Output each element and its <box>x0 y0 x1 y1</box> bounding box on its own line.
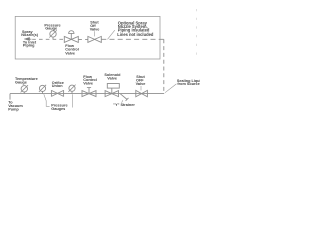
pressure gauge PG1 (bottom) <box>39 85 46 94</box>
svg-text:Valve: Valve <box>83 82 93 86</box>
svg-text:Union: Union <box>52 84 63 88</box>
solenoid valve label <box>104 73 121 81</box>
pressure gauges label <box>51 104 67 111</box>
flow control valve label (bottom) <box>83 75 97 86</box>
sheet edge tick marks (faint) <box>195 9 197 57</box>
leader shut off valve (top) <box>94 31 96 36</box>
temperature gauge TG <box>21 85 28 93</box>
svg-text:from Source: from Source <box>177 82 199 86</box>
sealing liquid supply line (vertical phantom) <box>163 39 165 93</box>
pipe (dashed) nozzle to flow control valve <box>32 38 64 40</box>
bottom pipe (solid main sealing line) <box>10 93 164 95</box>
leader pressure gauges right <box>71 94 73 107</box>
shut off valve label (top) <box>90 21 100 32</box>
sealing liquid from source label <box>177 79 204 86</box>
to inlet piping label <box>23 40 37 47</box>
pressure gauge label (top) <box>44 23 60 30</box>
pressure gauge PG (top) <box>49 30 56 39</box>
svg-text:Lines not included: Lines not included <box>117 32 154 37</box>
y strainer label <box>113 103 135 107</box>
pipe elbow to vacuum pump <box>9 94 11 100</box>
spray nozzle <box>24 37 31 40</box>
svg-text:Piping: Piping <box>23 44 35 48</box>
pipe (dashed) shut off valve to right elbow <box>101 38 164 40</box>
solenoid valve SV <box>105 84 119 97</box>
leader to system note <box>108 30 115 39</box>
svg-text:Valve: Valve <box>65 51 75 55</box>
to vacuum pump label <box>8 101 23 112</box>
leader pressure gauges left <box>44 94 50 106</box>
orifice union label <box>52 81 64 88</box>
pipe (dashed) between top valves <box>78 38 88 40</box>
shut off valve SOV (top) <box>88 36 101 42</box>
y strainer <box>120 94 128 101</box>
pressure gauge PG2 (bottom) <box>68 85 75 94</box>
spray nozzle label <box>21 30 38 37</box>
optional system boundary box <box>15 16 160 59</box>
system note text <box>117 20 154 36</box>
shut off valve label (bottom) <box>136 75 146 86</box>
svg-text:"Y" Strainer: "Y" Strainer <box>113 103 135 107</box>
leader sealing liquid <box>165 84 176 93</box>
svg-text:Gauges: Gauges <box>51 107 65 111</box>
leader shut off valve (bottom) <box>140 86 142 90</box>
shut off valve SOV (bottom) <box>136 90 148 96</box>
svg-text:Valve: Valve <box>136 82 146 86</box>
orifice union <box>51 90 63 96</box>
flow control valve FCV (bottom) <box>82 88 96 97</box>
svg-text:Valve: Valve <box>107 77 117 81</box>
svg-text:Valve: Valve <box>90 27 100 31</box>
svg-text:Pump: Pump <box>8 108 19 112</box>
svg-text:Gauge: Gauge <box>45 27 57 31</box>
temperature gauge label <box>15 77 38 85</box>
svg-text:Gauge: Gauge <box>15 81 27 85</box>
flow control valve FCV (top) <box>64 31 78 43</box>
flow control valve label (top) <box>65 44 79 55</box>
leader y strainer <box>122 100 123 103</box>
svg-text:Nozzle(s): Nozzle(s) <box>21 33 38 37</box>
